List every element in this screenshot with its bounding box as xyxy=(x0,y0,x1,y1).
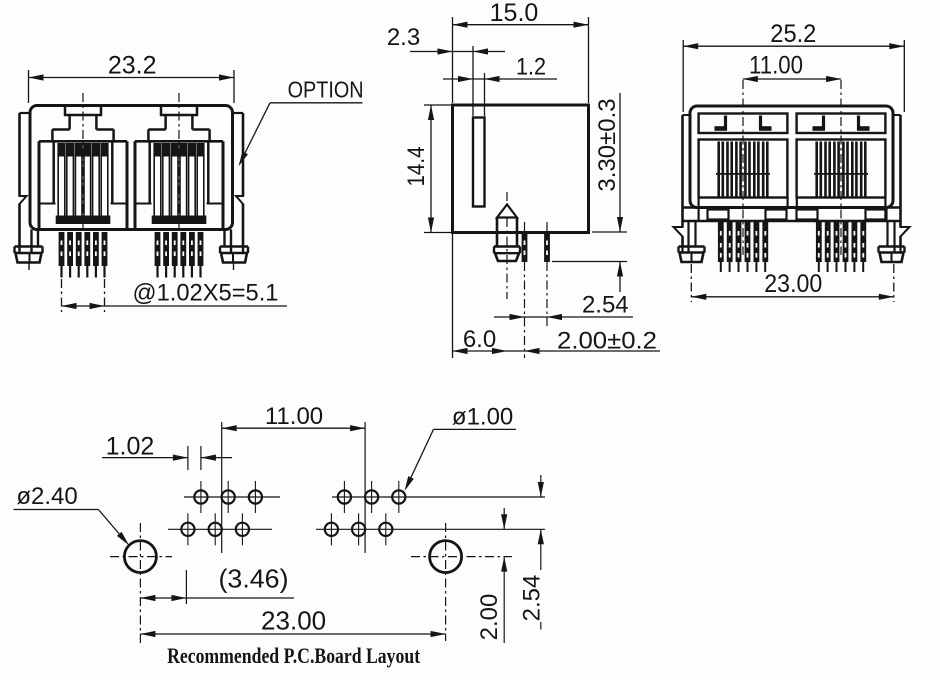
svg-text:1.2: 1.2 xyxy=(516,54,546,81)
svg-text:2.00: 2.00 xyxy=(476,594,503,641)
svg-text:11.00: 11.00 xyxy=(265,403,323,430)
svg-text:(3.46): (3.46) xyxy=(219,564,289,594)
svg-text:ø1.00: ø1.00 xyxy=(452,404,513,431)
svg-text:23.2: 23.2 xyxy=(108,52,157,80)
svg-text:23.00: 23.00 xyxy=(261,606,326,636)
svg-text:2.00±0.2: 2.00±0.2 xyxy=(557,328,657,355)
svg-text:3.30±0.3: 3.30±0.3 xyxy=(594,98,621,191)
svg-text:OPTION: OPTION xyxy=(288,77,364,103)
svg-text:1.02: 1.02 xyxy=(106,433,155,461)
svg-text:ø2.40: ø2.40 xyxy=(16,483,77,510)
svg-text:14.4: 14.4 xyxy=(403,147,430,187)
svg-text:6.0: 6.0 xyxy=(463,326,496,353)
svg-text:2.54: 2.54 xyxy=(582,292,629,319)
svg-text:2.3: 2.3 xyxy=(387,24,420,51)
svg-text:Recommended P.C.Board Layout: Recommended P.C.Board Layout xyxy=(167,643,421,668)
svg-text:25.2: 25.2 xyxy=(770,20,816,48)
svg-text:15.0: 15.0 xyxy=(490,0,539,27)
svg-text:11.00: 11.00 xyxy=(749,52,803,80)
svg-text:@1.02X5=5.1: @1.02X5=5.1 xyxy=(133,280,279,307)
svg-text:23.00: 23.00 xyxy=(764,270,822,298)
svg-text:2.54: 2.54 xyxy=(519,575,546,622)
